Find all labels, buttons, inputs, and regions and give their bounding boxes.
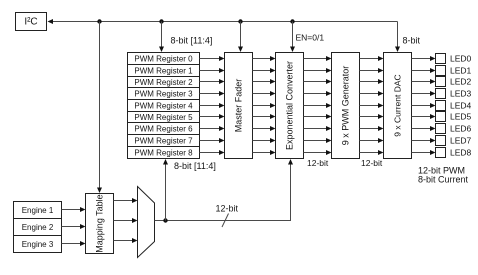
wire Exponential Converter to PWM Generator row 0 <box>304 56 332 61</box>
svg-text:PWM Register 5: PWM Register 5 <box>134 113 193 122</box>
wire PWM Generator to Current DAC row 5 <box>360 114 384 119</box>
svg-text:9 x PWM Generator: 9 x PWM Generator <box>341 66 351 146</box>
wire PWM Register 3 to Master Fader <box>200 91 225 96</box>
svg-text:LED4: LED4 <box>450 101 472 111</box>
wire Current DAC to LED5 <box>412 114 436 119</box>
wire Exponential Converter to PWM Generator row 4 <box>304 103 332 108</box>
svg-text:Master Fader: Master Fader <box>234 79 244 133</box>
wire Exponential Converter to PWM Generator row 8 <box>304 150 332 155</box>
svg-text:Engine 1: Engine 1 <box>22 206 54 215</box>
block Engine 1 <box>14 202 62 219</box>
wire Current DAC to LED0 <box>412 56 436 61</box>
svg-text:9 x Current DAC: 9 x Current DAC <box>393 74 403 136</box>
wire Current DAC to LED2 <box>412 79 436 84</box>
junction on I2C bus at x=99.5 <box>97 19 101 23</box>
wire bus drop to PWM register stack <box>159 22 164 53</box>
wire Current DAC to LED6 <box>412 126 436 131</box>
wire Master Fader to Exponential Converter row 2 <box>253 79 276 84</box>
svg-text:PWM Register 2: PWM Register 2 <box>134 78 193 87</box>
wire Master Fader to Exponential Converter row 6 <box>253 126 276 131</box>
junction on I2C bus at x=292.5 <box>290 19 294 23</box>
svg-text:12-bit: 12-bit <box>361 158 383 168</box>
wire Master Fader to Exponential Converter row 3 <box>253 91 276 96</box>
wire PWM Register 4 to Master Fader <box>200 103 225 108</box>
register PWM Register 6 <box>128 123 200 135</box>
svg-text:Engine 3: Engine 3 <box>22 240 54 249</box>
wire Master Fader to Exponential Converter row 0 <box>253 56 276 61</box>
wire bus drop to Master Fader <box>238 22 243 53</box>
svg-text:8-bit Current: 8-bit Current <box>418 175 469 185</box>
wire PWM Generator to Current DAC row 8 <box>360 150 384 155</box>
register PWM Register 0 <box>128 53 200 65</box>
svg-text:LED8: LED8 <box>450 148 472 158</box>
svg-text:12-bit: 12-bit <box>307 158 329 168</box>
wire PWM Register 7 to Master Fader <box>200 138 225 143</box>
svg-text:8-bit: 8-bit <box>403 36 421 46</box>
register PWM Register 7 <box>128 135 200 147</box>
pad LED3 output <box>436 89 446 99</box>
wire Mapping Table to mux input 3 <box>114 238 138 243</box>
svg-text:EN=0/1: EN=0/1 <box>296 33 325 43</box>
wire PWM Register 1 to Master Fader <box>200 68 225 73</box>
svg-text:8-bit [11:4]: 8-bit [11:4] <box>174 161 216 171</box>
wire Current DAC to LED4 <box>412 103 436 108</box>
label 12-bit PWM / 8-bit Current <box>418 166 469 185</box>
wire Exponential Converter to PWM Generator row 1 <box>304 68 332 73</box>
register PWM Register 5 <box>128 112 200 123</box>
block Engine 2 <box>14 219 62 236</box>
svg-text:LED7: LED7 <box>450 136 472 146</box>
pad LED6 output <box>436 124 446 134</box>
svg-text:8-bit [11:4]: 8-bit [11:4] <box>171 36 213 46</box>
wire Exponential Converter to PWM Generator row 2 <box>304 79 332 84</box>
svg-text:PWM Register 7: PWM Register 7 <box>134 137 193 146</box>
junction on I2C bus at x=240.5 <box>238 19 242 23</box>
svg-text:12-bit: 12-bit <box>216 204 239 214</box>
wire Exponential Converter to PWM Generator row 6 <box>304 126 332 131</box>
pad LED8 output <box>436 148 446 158</box>
wire Master Fader to Exponential Converter row 1 <box>253 68 276 73</box>
bus width slash on 12-bit wire <box>222 214 229 228</box>
pad LED1 output <box>436 66 446 76</box>
wire arrow into Exponential Converter bottom <box>288 159 293 165</box>
wire PWM Generator to Current DAC row 4 <box>360 103 384 108</box>
register PWM Register 2 <box>128 77 200 88</box>
wire Engine 1 to Mapping Table <box>62 207 86 212</box>
wire Mapping Table to mux input 1 <box>114 198 138 203</box>
pad LED2 output <box>436 77 446 87</box>
wire Exponential Converter to PWM Generator row 7 <box>304 138 332 143</box>
svg-text:LED2: LED2 <box>450 77 472 87</box>
wire PWM Generator to Current DAC row 2 <box>360 79 384 84</box>
svg-text:PWM Register 1: PWM Register 1 <box>134 67 193 76</box>
svg-text:PWM Register 0: PWM Register 0 <box>134 55 193 64</box>
block 9 x Current DAC <box>384 53 412 159</box>
block Mapping Table <box>86 194 114 254</box>
block Engine 3 <box>14 236 62 253</box>
svg-text:LED6: LED6 <box>450 124 472 134</box>
svg-text:PWM Register 6: PWM Register 6 <box>134 125 193 134</box>
wire PWM Register 8 to Master Fader <box>200 150 225 155</box>
svg-text:LED1: LED1 <box>450 66 472 76</box>
wire Engine 2 to Mapping Table <box>62 224 86 229</box>
pad LED7 output <box>436 136 446 146</box>
block I2C interface <box>16 13 47 31</box>
junction on mux output bus <box>163 218 167 222</box>
wire PWM Generator to Current DAC row 3 <box>360 91 384 96</box>
wire Master Fader to Exponential Converter row 5 <box>253 114 276 119</box>
wire Current DAC to LED1 <box>412 68 436 73</box>
wire Current DAC to LED3 <box>412 91 436 96</box>
block 9 x PWM Generator <box>332 53 360 159</box>
wire Current DAC to LED7 <box>412 138 436 143</box>
wire bus corner drop to Current DAC <box>395 22 400 53</box>
svg-text:LED0: LED0 <box>450 54 472 64</box>
wire Current DAC to LED8 <box>412 150 436 155</box>
wire PWM Register 5 to Master Fader <box>200 114 225 119</box>
pad LED0 output <box>436 54 446 64</box>
register PWM Register 3 <box>128 88 200 100</box>
wire Master Fader to Exponential Converter row 7 <box>253 138 276 143</box>
svg-text:LED3: LED3 <box>450 89 472 99</box>
wire PWM Generator to Current DAC row 1 <box>360 68 384 73</box>
svg-text:Exponential Converter: Exponential Converter <box>285 61 295 150</box>
wire Exponential Converter to PWM Generator row 5 <box>304 114 332 119</box>
wire PWM Register 0 to Master Fader <box>200 56 225 61</box>
register PWM Register 4 <box>128 100 200 112</box>
wire bus drop to Exponential Converter (EN) <box>290 22 295 53</box>
wire Engine 3 to Mapping Table <box>62 241 86 246</box>
mux selector (trapezoid) <box>138 187 155 258</box>
svg-text:LED5: LED5 <box>450 112 472 122</box>
pad LED5 output <box>436 112 446 122</box>
block Master Fader <box>225 53 253 159</box>
wire bus drop to Mapping Table <box>97 22 102 194</box>
wire PWM Register 2 to Master Fader <box>200 79 225 84</box>
pad LED4 output <box>436 101 446 111</box>
svg-text:Engine 2: Engine 2 <box>22 223 54 232</box>
wire top I2C bus <box>48 19 398 24</box>
wire Master Fader to Exponential Converter row 8 <box>253 150 276 155</box>
wire Mapping Table to mux input 2 <box>114 218 138 223</box>
svg-text:Mapping Table: Mapping Table <box>95 194 105 252</box>
wire junction up to PWM register stack bottom <box>163 159 168 221</box>
register PWM Register 1 <box>128 65 200 77</box>
svg-text:I²C: I²C <box>24 17 37 28</box>
wire PWM Generator to Current DAC row 7 <box>360 138 384 143</box>
wire mux output 12-bit bus <box>155 164 291 221</box>
wire PWM Generator to Current DAC row 6 <box>360 126 384 131</box>
svg-text:PWM Register 8: PWM Register 8 <box>134 149 193 158</box>
wire PWM Register 6 to Master Fader <box>200 126 225 131</box>
svg-text:PWM Register 4: PWM Register 4 <box>134 102 193 111</box>
junction on I2C bus at x=161.5 <box>159 19 163 23</box>
svg-text:PWM Register 3: PWM Register 3 <box>134 90 193 99</box>
block Exponential Converter <box>276 53 304 159</box>
wire PWM Generator to Current DAC row 0 <box>360 56 384 61</box>
register PWM Register 8 <box>128 147 200 159</box>
wire Master Fader to Exponential Converter row 4 <box>253 103 276 108</box>
wire Exponential Converter to PWM Generator row 3 <box>304 91 332 96</box>
